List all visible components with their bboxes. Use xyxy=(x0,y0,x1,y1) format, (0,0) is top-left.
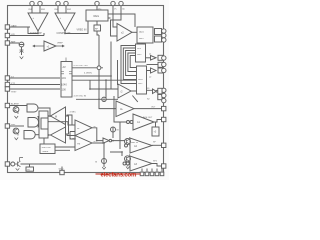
svg-text:TIMER: TIMER xyxy=(42,151,49,153)
svg-text:SP: SP xyxy=(153,141,156,143)
svg-text:S1: S1 xyxy=(147,88,150,90)
gate G3 xyxy=(38,116,49,126)
svg-text:DRV: DRV xyxy=(139,38,144,40)
svg-text:AL: AL xyxy=(120,108,124,111)
right pin R11 xyxy=(143,116,166,122)
top pin 5 xyxy=(95,1,103,10)
buffer A3 xyxy=(149,54,156,61)
current source I2 xyxy=(111,127,120,138)
wire U1 feedback xyxy=(10,27,45,36)
buffer A5 xyxy=(153,89,158,94)
wire T2 line xyxy=(67,134,76,140)
comparator T2 xyxy=(47,127,65,143)
transistor Q2 xyxy=(125,154,131,163)
buffer A4 xyxy=(147,68,157,79)
box B_timer xyxy=(39,111,48,138)
svg-text:A3: A3 xyxy=(134,163,138,166)
top pin 3 xyxy=(55,1,61,11)
current source I3 xyxy=(95,159,107,164)
svg-text:DRV: DRV xyxy=(137,54,142,56)
right pin R12 xyxy=(153,141,166,147)
box B6 xyxy=(136,44,146,62)
svg-text:4.19 OSC IN: 4.19 OSC IN xyxy=(74,96,87,98)
amp A2 x2 xyxy=(117,24,137,42)
box B8a xyxy=(158,55,163,60)
top pin 1 xyxy=(29,1,35,11)
top pin 2 xyxy=(38,1,46,11)
wire A6 out xyxy=(134,108,162,110)
svg-text:DIG: DIG xyxy=(137,48,141,50)
bottom pin B5 xyxy=(160,169,164,176)
bottom pin GND xyxy=(59,167,65,175)
reference box B3 xyxy=(94,21,101,31)
left pin OSC2 xyxy=(5,82,16,86)
right pin R6 xyxy=(147,68,166,72)
svg-text:OUT: OUT xyxy=(151,106,156,108)
ground G_I3 xyxy=(102,167,106,169)
left pin VREF1 xyxy=(5,24,17,29)
svg-text:/2: /2 xyxy=(121,91,124,94)
comparator T1 xyxy=(47,107,65,125)
left pin PD xyxy=(5,162,9,166)
svg-text:+1: +1 xyxy=(47,45,51,49)
op-amp U2 (COMPO OP, pointing down) xyxy=(55,6,75,32)
sleep comparator T_M1 xyxy=(75,120,96,136)
right pin R8 xyxy=(162,93,166,97)
left pin OSC3 xyxy=(5,87,17,94)
svg-text:IS: IS xyxy=(95,161,98,163)
svg-text:TM: TM xyxy=(77,144,80,146)
svg-text:SEG: SEG xyxy=(139,32,144,34)
wire PD line xyxy=(21,164,57,167)
box B10 xyxy=(40,138,75,154)
divider amp A2b xyxy=(118,84,131,98)
svg-text:TEST: TEST xyxy=(11,91,17,93)
right pin R5 xyxy=(147,62,167,66)
bottom pin B3 xyxy=(150,169,154,176)
junction dots xyxy=(37,33,123,153)
box B9 +3 xyxy=(152,122,159,136)
buffer A1 +1 xyxy=(33,41,64,51)
svg-text:FB1: FB1 xyxy=(41,9,46,11)
wire A2b out xyxy=(114,90,153,122)
svg-text:1040: 1040 xyxy=(61,83,67,87)
left pin SW2 xyxy=(5,124,24,128)
svg-text:M: M xyxy=(55,115,57,118)
svg-text:NML IN: NML IN xyxy=(131,142,138,144)
svg-text:GAIN: GAIN xyxy=(11,24,17,27)
right pin R3 xyxy=(162,38,166,42)
wire U2 output xyxy=(10,22,89,44)
svg-text:4.19 OSC OUT: 4.19 OSC OUT xyxy=(74,65,89,67)
svg-text:REF: REF xyxy=(11,41,16,43)
wire T_M inputs xyxy=(49,122,76,139)
ground G_Q2 xyxy=(126,167,130,169)
left pin VREF2 xyxy=(5,33,15,37)
left pin VREF3 xyxy=(5,41,16,45)
box B8d xyxy=(158,88,162,94)
svg-text:x2: x2 xyxy=(121,31,124,35)
right pin R13 xyxy=(153,161,166,169)
svg-text:SP2: SP2 xyxy=(153,161,158,163)
transistor Q1 xyxy=(125,137,131,146)
right pin R2 xyxy=(162,33,166,37)
svg-text:o1: o1 xyxy=(149,54,152,56)
left pin OSC1 xyxy=(5,76,14,80)
photo diode D2 xyxy=(10,162,19,166)
alarm amp A6 xyxy=(116,101,134,117)
IC boundary frame xyxy=(8,6,164,173)
divider box B1 xyxy=(61,58,72,98)
summing node N2 xyxy=(102,97,106,101)
ground under D1 xyxy=(20,57,24,59)
watermark elecfans.com xyxy=(96,172,141,179)
wire osc out xyxy=(72,31,137,99)
AND gate G4 xyxy=(24,131,39,139)
svg-text:A1: A1 xyxy=(137,121,141,124)
box B8e xyxy=(158,95,162,100)
svg-text:A2: A2 xyxy=(134,145,138,148)
svg-text:AV: AV xyxy=(63,65,67,69)
svg-text:- +: - + xyxy=(31,17,34,20)
svg-text:IB: IB xyxy=(117,130,120,132)
box B7 xyxy=(137,66,147,94)
box B8c xyxy=(158,68,163,73)
top pin 7 xyxy=(119,1,126,14)
svg-text:100: 100 xyxy=(62,87,67,91)
svg-text:GND: GND xyxy=(59,168,64,170)
timer comparator T_M2 xyxy=(75,136,96,151)
top pin 4 xyxy=(64,1,72,11)
bottom pin B1 xyxy=(140,169,144,176)
gate G2 xyxy=(28,118,39,128)
left pin SW1 xyxy=(5,103,27,108)
svg-text:REG: REG xyxy=(94,14,100,18)
wire TM apex xyxy=(92,122,122,167)
top pin 6 xyxy=(111,1,118,18)
svg-text:TR: TR xyxy=(27,169,30,171)
transistor Q3 xyxy=(16,158,23,171)
box B5b xyxy=(155,36,162,42)
wire T1 out xyxy=(67,112,76,125)
bottom pin B4 xyxy=(155,169,159,176)
right pin R1 xyxy=(162,29,166,33)
regulator box B2 xyxy=(86,10,108,21)
right pin R7 xyxy=(147,88,166,93)
driver T_c xyxy=(123,156,162,171)
op-amp U1 (AUDIO OP, pointing down) xyxy=(28,6,48,32)
svg-text:DEC: DEC xyxy=(138,83,143,85)
nested wire bundle xyxy=(121,43,142,84)
svg-text:FB2: FB2 xyxy=(67,9,72,11)
svg-text:4.19kHz: 4.19kHz xyxy=(84,72,92,74)
inverter A8 xyxy=(98,138,125,143)
svg-text:SEG: SEG xyxy=(138,79,143,81)
right pin R9 xyxy=(147,98,167,102)
svg-text:4 SEC: 4 SEC xyxy=(70,112,77,114)
svg-text:o2: o2 xyxy=(149,77,152,79)
driver T_b xyxy=(125,138,162,153)
zener D1 xyxy=(20,47,24,55)
wire center xyxy=(76,80,118,108)
box B5a xyxy=(155,29,162,35)
svg-text:SL: SL xyxy=(77,128,80,130)
box B8b xyxy=(158,62,163,67)
transistor TL2 xyxy=(13,128,19,140)
bottom pin B2 xyxy=(145,169,149,176)
transistor TL1 xyxy=(13,107,19,119)
svg-text:101: 101 xyxy=(62,76,67,80)
right pin R10 xyxy=(151,106,166,110)
svg-text:VREG IN: VREG IN xyxy=(77,29,87,32)
svg-text:Vp: Vp xyxy=(122,8,125,10)
svg-text:elecfans.com: elecfans.com xyxy=(101,172,137,179)
box B11 xyxy=(26,167,34,171)
resistor Rv xyxy=(66,116,69,134)
wire REG to right xyxy=(108,14,135,36)
svg-text:- +: - + xyxy=(58,17,61,20)
gate T_a with bubbles xyxy=(127,114,162,130)
box B4 xyxy=(137,27,153,43)
AND gate G1 xyxy=(27,104,50,117)
right pin R4 xyxy=(146,56,167,60)
svg-text:SNOOZE: SNOOZE xyxy=(42,147,52,149)
svg-text:VREF: VREF xyxy=(57,43,63,45)
wire crystal lines xyxy=(10,78,61,89)
svg-text:LPF: LPF xyxy=(11,34,16,36)
current source I1 xyxy=(19,42,24,47)
svg-text:Vs: Vs xyxy=(114,8,117,10)
node N1 xyxy=(97,66,101,70)
